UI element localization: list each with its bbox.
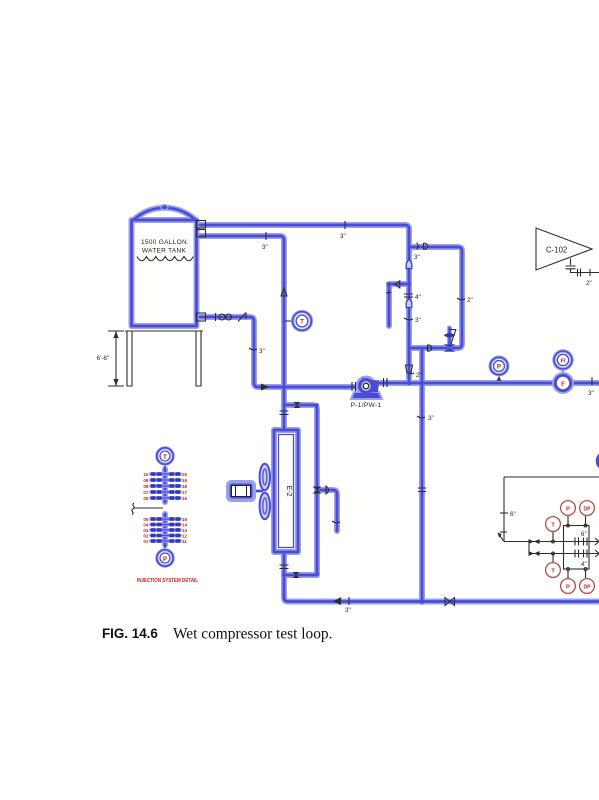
bottom line valve — [445, 598, 455, 606]
pipe: tank second outlet down to E-2 — [200, 236, 284, 430]
svg-text:T: T — [300, 319, 304, 326]
gauge P upper — [561, 501, 576, 516]
riser tee valve — [395, 281, 400, 288]
svg-text:1500 GALLON: 1500 GALLON — [141, 239, 187, 246]
compressor discharge spool — [566, 259, 599, 288]
pipe: pump discharge main line — [366, 382, 599, 385]
svg-text:6": 6" — [581, 531, 587, 538]
svg-text:T: T — [551, 523, 555, 529]
riser coupling + 4" — [404, 294, 421, 301]
injection stem bottom — [164, 545, 166, 549]
E-2 fan — [250, 464, 270, 519]
pump P-1/PW-1 — [351, 376, 382, 400]
bypass drain valve — [313, 486, 329, 494]
svg-text:3": 3" — [340, 233, 346, 240]
crossover 3" label — [417, 415, 434, 422]
svg-text:15: 15 — [182, 517, 188, 522]
pipe: drain stub — [317, 490, 337, 531]
tank stand — [125, 331, 203, 386]
gauge DP lower — [580, 579, 595, 594]
svg-text:06: 06 — [143, 496, 149, 501]
svg-text:3": 3" — [588, 390, 594, 397]
svg-text:08: 08 — [143, 484, 149, 489]
svg-text:P: P — [497, 363, 501, 370]
svg-text:20: 20 — [182, 472, 188, 477]
svg-text:14: 14 — [182, 523, 188, 528]
coupling below E-2 — [280, 565, 289, 569]
tank nozzle middle — [197, 230, 206, 238]
test manifold top line — [504, 476, 599, 478]
svg-text:6": 6" — [510, 511, 516, 518]
svg-text:P: P — [566, 507, 570, 513]
caption — [102, 626, 332, 643]
bypass valve bottom — [293, 572, 300, 578]
bypass valve top — [294, 402, 301, 408]
svg-text:3": 3" — [428, 415, 434, 422]
pipe: E-2 outlet and bottom return line — [284, 552, 599, 602]
loop bottom check valve — [428, 345, 432, 352]
reducer on suction line — [216, 313, 232, 321]
svg-text:FIG. 14.6: FIG. 14.6 — [102, 626, 158, 641]
coupling on E-2 feed — [280, 411, 289, 415]
injection lower manifold — [164, 514, 167, 545]
svg-text:02: 02 — [143, 534, 149, 539]
instrument P on main line — [489, 356, 510, 381]
injection break symbol — [132, 503, 163, 515]
gauge T lower — [546, 563, 561, 578]
svg-text:F: F — [561, 381, 565, 388]
crossover coupling — [418, 488, 426, 492]
svg-text:4": 4" — [415, 294, 421, 301]
tank T-1 shell — [132, 220, 197, 326]
instrument FI — [552, 349, 573, 377]
loop branch check valve — [424, 243, 428, 250]
flow arrow right on suction — [261, 384, 269, 391]
riser 3" tick — [404, 317, 421, 324]
svg-text:6'-6": 6'-6" — [97, 355, 110, 362]
svg-text:DP: DP — [584, 506, 592, 512]
svg-text:FI: FI — [561, 359, 566, 365]
instrument T on E-2 feed — [285, 310, 313, 332]
svg-text:01: 01 — [143, 539, 149, 544]
control valve with actuator — [444, 328, 456, 352]
water level wavy line — [137, 257, 193, 261]
pump suction coupling — [352, 382, 356, 391]
svg-text:2": 2" — [586, 280, 592, 287]
svg-text:3": 3" — [414, 254, 420, 261]
tank label — [141, 239, 187, 255]
svg-text:INJECTION SYSTEM DETAIL: INJECTION SYSTEM DETAIL — [137, 578, 199, 584]
svg-text:T: T — [551, 569, 555, 575]
svg-text:C-102: C-102 — [546, 246, 567, 255]
injection stem top — [164, 466, 166, 471]
pipe: bypass lower connector — [284, 574, 317, 577]
loop 2" label — [457, 297, 473, 304]
svg-text:4": 4" — [581, 561, 587, 568]
orifice flange box — [552, 516, 589, 578]
pipe: bypass branch to vertical — [284, 405, 317, 575]
svg-text:2": 2" — [416, 372, 422, 379]
gauge T upper — [546, 517, 561, 532]
svg-text:P-1/PW-1: P-1/PW-1 — [351, 402, 382, 409]
check valve on suction — [238, 313, 246, 322]
svg-text:07: 07 — [143, 490, 149, 495]
pipe: tank bottom outlet to pump suction — [200, 317, 366, 387]
pipe: tank upper outlet to loop (3") — [200, 225, 409, 383]
svg-text:T: T — [163, 454, 167, 461]
label 3" on suction riser — [249, 348, 265, 355]
tank nozzle upper — [197, 221, 206, 229]
svg-text:E-2: E-2 — [285, 485, 294, 496]
svg-text:3": 3" — [345, 607, 351, 614]
svg-text:03: 03 — [143, 528, 149, 533]
tank T-1 dome — [134, 205, 196, 220]
gauge DP upper — [580, 501, 595, 516]
reducer trapezoid + 2" — [406, 365, 422, 379]
injection P instrument — [155, 548, 175, 568]
label 3" on second pipe — [262, 232, 268, 251]
instrument F on line — [552, 372, 574, 394]
pump discharge coupling — [384, 378, 388, 387]
compressor C-102 — [536, 228, 592, 270]
svg-text:10: 10 — [143, 472, 149, 477]
svg-text:11: 11 — [182, 539, 187, 544]
injection detail: T instrument — [155, 446, 175, 466]
label 3" on top pipe — [340, 221, 346, 240]
drain tick — [332, 521, 340, 523]
svg-text:3": 3" — [415, 317, 421, 324]
bottom line 3" label — [345, 597, 351, 614]
dimension 6'-6" — [97, 331, 125, 386]
svg-text:05: 05 — [143, 517, 149, 522]
svg-text:2": 2" — [467, 297, 473, 304]
riser arrow 2 — [406, 298, 412, 308]
bottom line arrow — [333, 597, 341, 605]
E-2 cooler body — [274, 430, 298, 552]
junction dots — [282, 282, 425, 604]
gauge P lower — [561, 579, 576, 594]
svg-text:16: 16 — [182, 496, 188, 501]
test manifold run 2 (4") — [529, 542, 599, 569]
pipe: vent stub left of riser — [389, 284, 409, 326]
svg-text:DP: DP — [584, 584, 592, 590]
flow arrow up on E-2 feed — [281, 288, 287, 296]
svg-text:04: 04 — [143, 523, 149, 528]
loop branch tick + 3" — [414, 243, 420, 262]
svg-text:19: 19 — [182, 478, 188, 483]
svg-text:13: 13 — [182, 528, 188, 533]
svg-text:P: P — [163, 556, 168, 563]
svg-text:P: P — [566, 585, 570, 591]
E-2 fan motor — [226, 480, 256, 502]
riser symbols: up arrow — [406, 259, 412, 269]
injection valve rows — [143, 472, 187, 544]
test manifold left vertical — [498, 477, 516, 542]
svg-text:Wet compressor test loop.: Wet compressor test loop. — [173, 626, 332, 643]
injection upper manifold — [164, 469, 167, 502]
svg-text:12: 12 — [182, 534, 188, 539]
tank nozzle bottom — [197, 313, 206, 321]
svg-text:WATER TANK: WATER TANK — [142, 248, 187, 255]
main line 3" at right — [588, 377, 594, 397]
svg-text:09: 09 — [143, 478, 149, 483]
svg-text:3": 3" — [262, 244, 268, 251]
svg-text:3": 3" — [259, 348, 265, 355]
test manifold run 1 (6") — [504, 531, 599, 546]
svg-text:18: 18 — [182, 484, 188, 489]
svg-text:17: 17 — [182, 490, 188, 495]
instrument circle clipped at right edge — [598, 453, 599, 470]
pipe: loop branch and 2" riser — [409, 247, 462, 348]
pipe: vertical crossover x=422 — [421, 348, 424, 602]
piping halo underlay — [132, 208, 599, 602]
